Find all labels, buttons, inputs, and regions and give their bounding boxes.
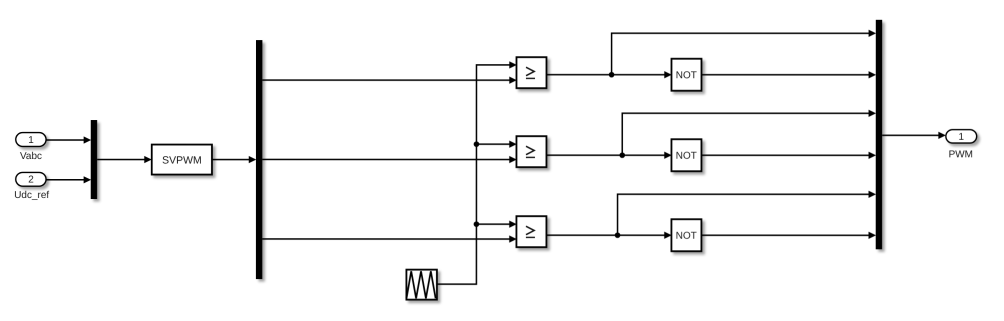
svg-text:SVPWM: SVPWM [162, 154, 202, 166]
svg-text:NOT: NOT [676, 70, 697, 81]
svg-text:NOT: NOT [676, 151, 697, 162]
svg-text:Udc_ref: Udc_ref [14, 190, 49, 201]
svg-text:NOT: NOT [676, 231, 697, 242]
svg-text:2: 2 [28, 175, 34, 186]
svg-text:PWM: PWM [949, 149, 973, 160]
svg-text:1: 1 [958, 132, 964, 143]
svg-text:Vabc: Vabc [20, 151, 42, 162]
svg-text:1: 1 [28, 135, 34, 146]
